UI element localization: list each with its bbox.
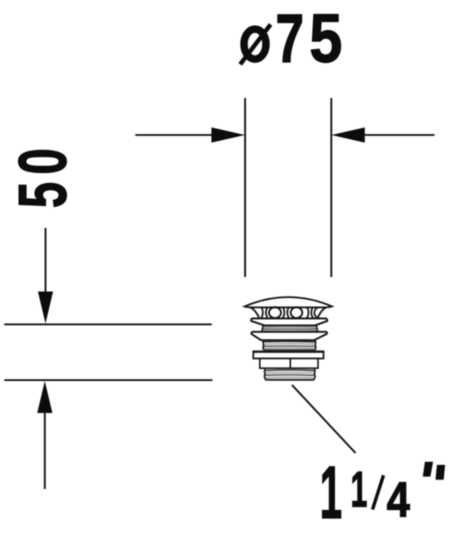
svg-text:4: 4 bbox=[387, 472, 411, 527]
svg-text:5: 5 bbox=[309, 0, 342, 77]
svg-text:0: 0 bbox=[6, 148, 81, 174]
svg-text:5: 5 bbox=[6, 182, 81, 208]
svg-text:7: 7 bbox=[276, 0, 305, 77]
svg-text:1: 1 bbox=[351, 461, 368, 517]
svg-text:1: 1 bbox=[320, 451, 342, 533]
